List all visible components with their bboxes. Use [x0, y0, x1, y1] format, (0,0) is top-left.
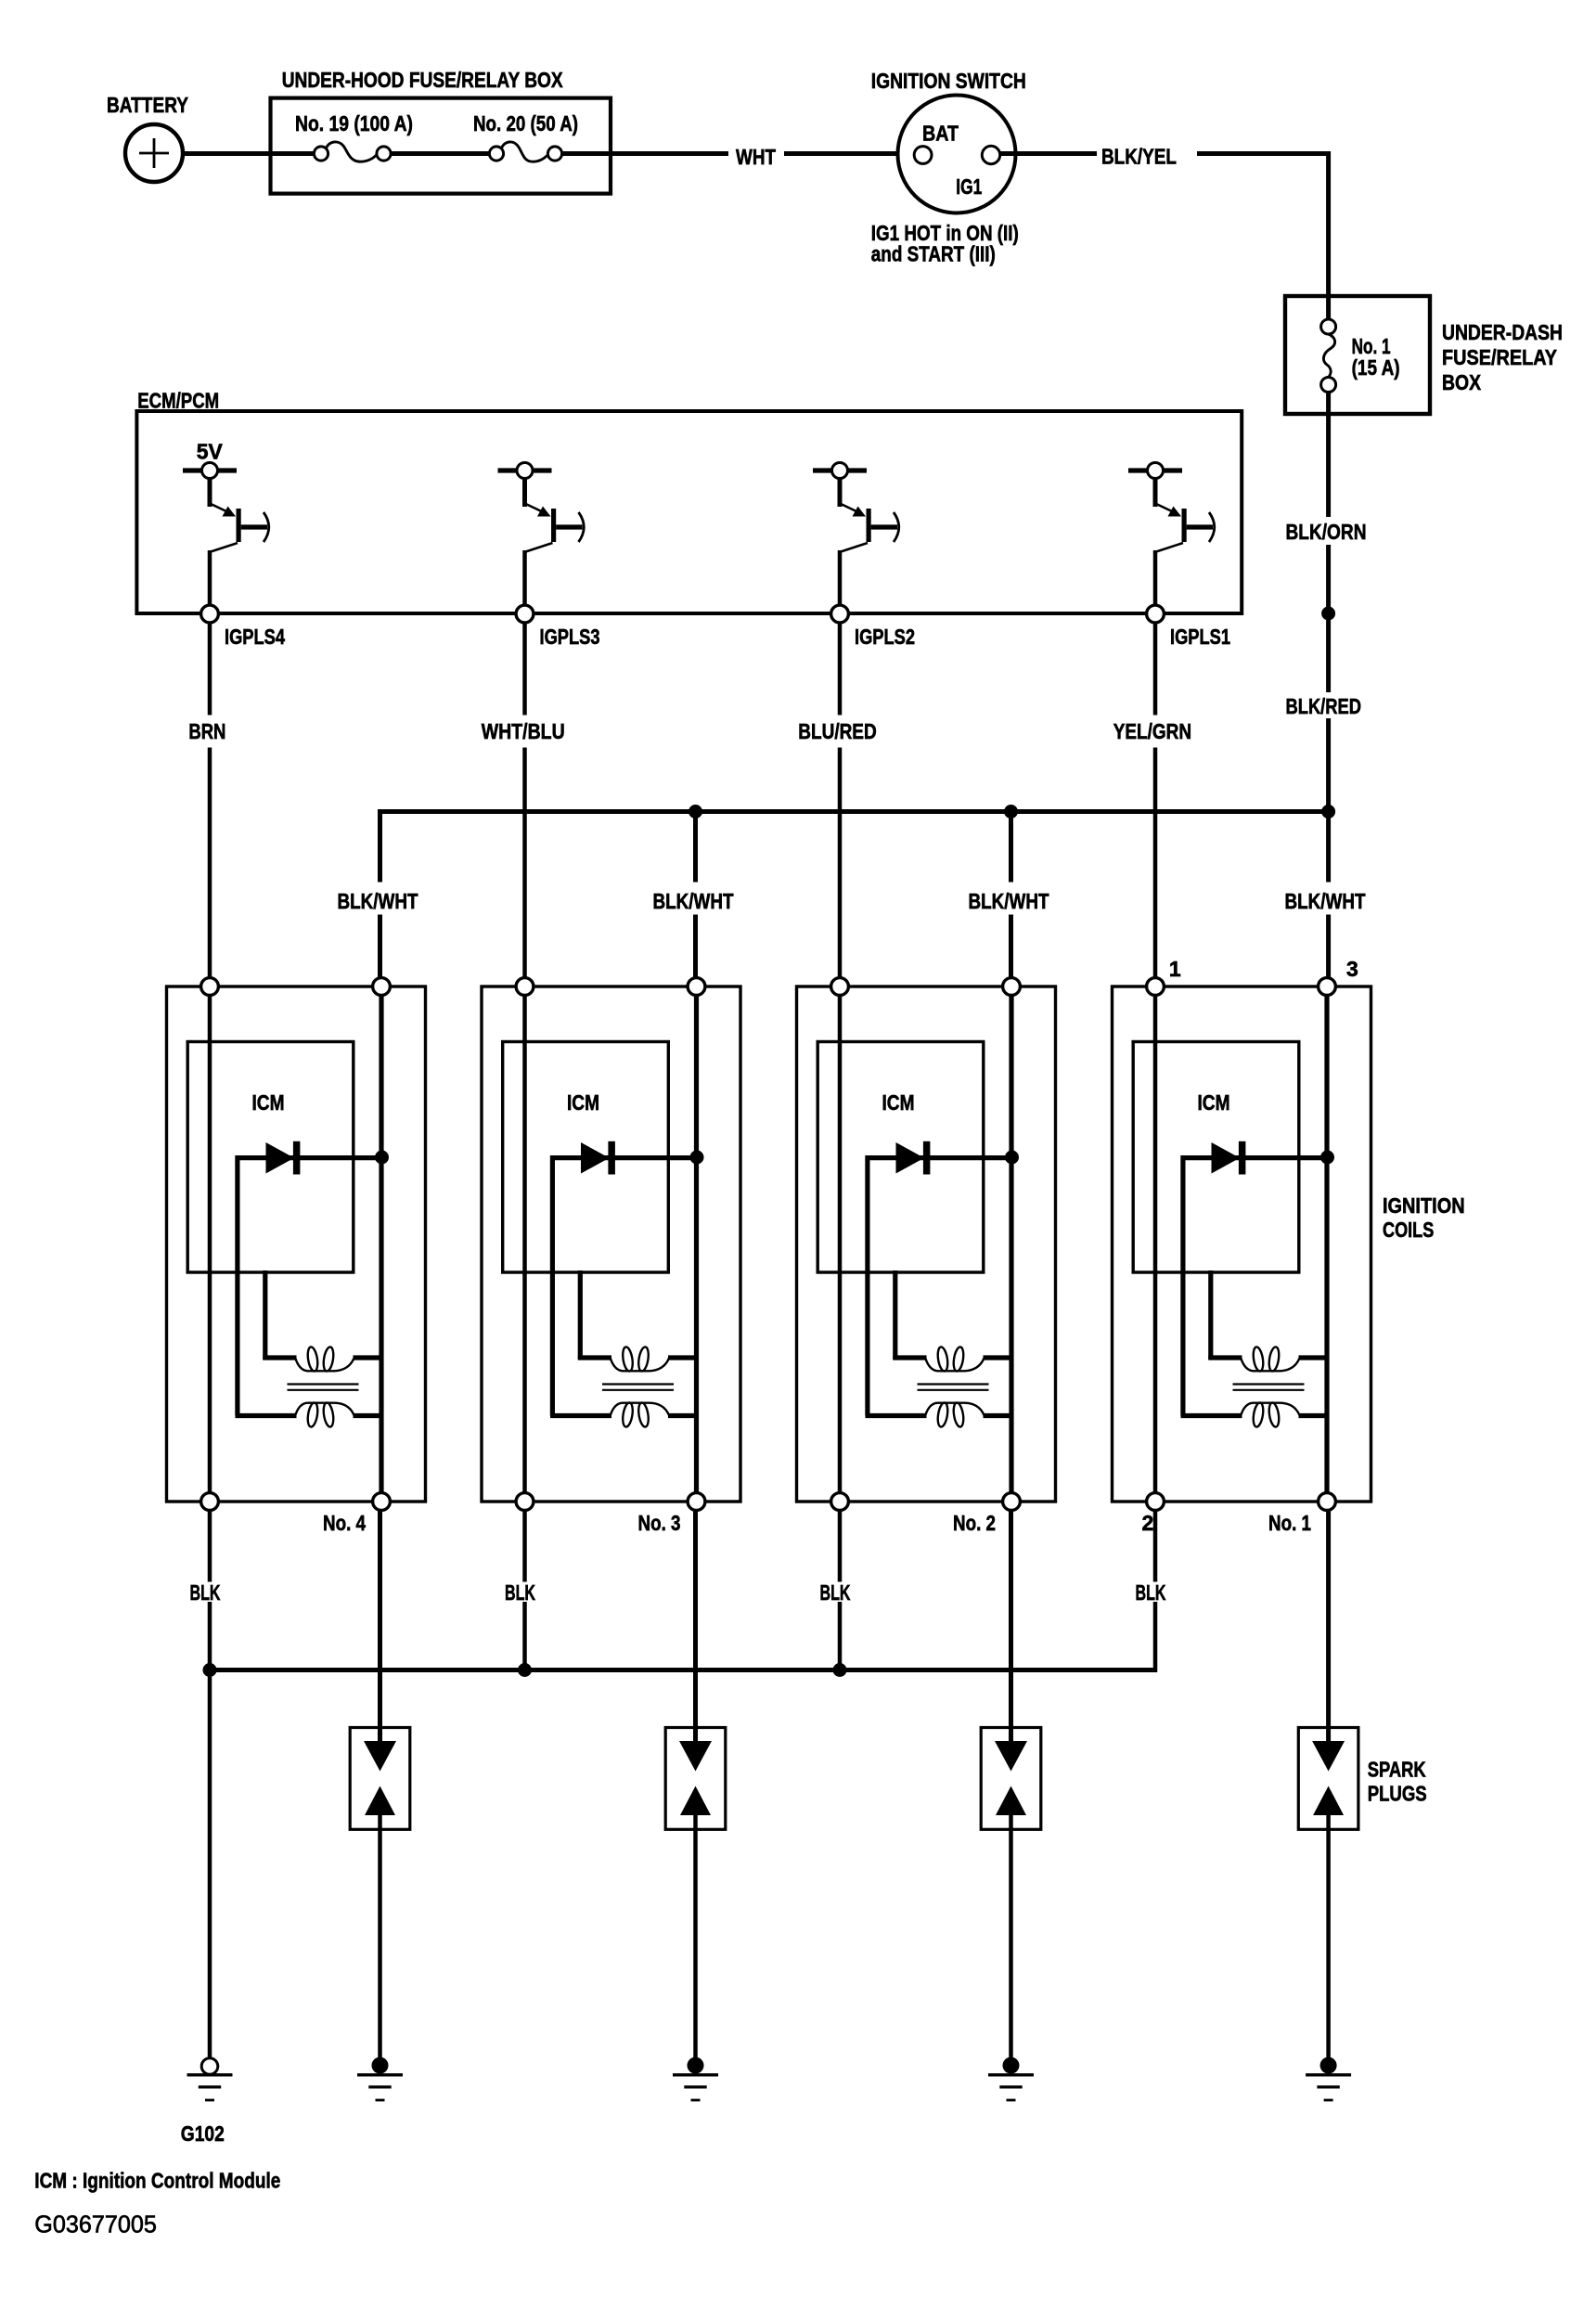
- wire coil 3 to spark plug: [693, 1511, 698, 1746]
- svg-text:ICM: ICM: [252, 1090, 285, 1115]
- svg-text:WHT: WHT: [736, 145, 776, 169]
- coil 1 bottom-left terminal: [1147, 1493, 1165, 1511]
- svg-text:IGPLS2: IGPLS2: [855, 625, 915, 649]
- wire BLK/RED down to bus: [1326, 718, 1331, 883]
- svg-text:YEL/GRN: YEL/GRN: [1113, 719, 1191, 743]
- ground bus junctions: [203, 1663, 217, 1677]
- ignition coil transformer T2 secondary: [866, 1402, 1014, 1428]
- ground (spark plug 1): [1306, 2057, 1351, 2100]
- ICM box (coil 4): [187, 1042, 354, 1273]
- ECM pin IGPLS3: [516, 605, 599, 649]
- ICM box (coil 3): [503, 1042, 669, 1273]
- ignition switch note: [871, 221, 1019, 266]
- control wire through ICM: [1153, 994, 1158, 1494]
- control wire through ICM: [838, 994, 843, 1494]
- wire to coil 1 terminal 3: [1326, 915, 1331, 979]
- wire BLK/ORN continues: [1326, 545, 1331, 692]
- svg-text:BLU/RED: BLU/RED: [798, 719, 876, 743]
- coil supply wire (right, from top terminal to bottom terminal): [694, 994, 699, 1494]
- svg-text:IGPLS1: IGPLS1: [1170, 625, 1230, 649]
- svg-text:1: 1: [1169, 957, 1181, 981]
- svg-text:IGPLS3: IGPLS3: [540, 625, 600, 649]
- ignition coil 1 box: [1113, 986, 1371, 1502]
- coil 3 top-left terminal: [516, 978, 534, 996]
- wire BLK/WHT to coil 3: [693, 915, 698, 979]
- ignition coil transformer T4 secondary: [236, 1402, 384, 1428]
- coil supply wire (right, from top terminal to bottom terminal): [379, 994, 383, 1494]
- under-dash box label: [1442, 320, 1563, 394]
- svg-text:BLK: BLK: [190, 1580, 221, 1605]
- transformer T2 core: [918, 1385, 989, 1390]
- wire spark plug 1 to ground: [1326, 1813, 1331, 2057]
- ICM box (coil 1): [1133, 1042, 1299, 1273]
- ignition coil 2 box: [797, 986, 1056, 1502]
- BLK/WHT bus wire: [378, 809, 1329, 814]
- svg-text:PLUGS: PLUGS: [1368, 1782, 1427, 1806]
- coil 4 bottom-right terminal: [373, 1493, 391, 1511]
- ground (spark plug 2): [988, 2057, 1034, 2100]
- bus junction to coil 2: [1004, 805, 1018, 819]
- coil 4 top-right terminal: [373, 978, 391, 996]
- svg-text:IGPLS4: IGPLS4: [225, 625, 285, 649]
- label SPARK PLUGS: [1368, 1758, 1427, 1806]
- junction diode/supply: [375, 1151, 389, 1165]
- svg-text:ICM: ICM: [882, 1090, 915, 1115]
- svg-text:No. 2: No. 2: [953, 1511, 996, 1535]
- svg-text:BLK: BLK: [820, 1580, 851, 1605]
- svg-text:BLK/YEL: BLK/YEL: [1101, 145, 1177, 169]
- coil supply wire (right, from top terminal to bottom terminal): [1324, 994, 1329, 1494]
- ECM pin IGPLS1: [1147, 605, 1231, 649]
- spark plug 4: [350, 1728, 410, 1830]
- diode D2 in ICM: [868, 1141, 1010, 1416]
- wire coil 4 to spark plug: [378, 1511, 382, 1746]
- coil 2 top-left terminal: [831, 978, 849, 996]
- coil 2 bottom-right terminal: [1003, 1493, 1021, 1511]
- svg-text:BATTERY: BATTERY: [107, 93, 188, 117]
- wire BLK to ground bus: [208, 1602, 212, 1672]
- ECM pin IGPLS2: [831, 605, 915, 649]
- svg-text:5V: 5V: [197, 439, 224, 463]
- coil 3 bottom-left terminal: [516, 1493, 534, 1511]
- wire spark plug 2 to ground: [1009, 1813, 1013, 2057]
- svg-text:IGNITION SWITCH: IGNITION SWITCH: [871, 69, 1026, 93]
- svg-text:BLK/WHT: BLK/WHT: [338, 889, 418, 913]
- transformer T3 core: [602, 1385, 674, 1390]
- coil 4 top-left terminal: [201, 978, 219, 996]
- svg-text:G03677005: G03677005: [34, 2212, 157, 2238]
- svg-text:No. 20 (50 A): No. 20 (50 A): [473, 111, 578, 135]
- wire BRN from IGPLS4: [208, 623, 212, 716]
- svg-text:BLK/WHT: BLK/WHT: [969, 889, 1049, 913]
- battery B1: [107, 93, 188, 182]
- wire BLK/ORN from under-dash box down: [1326, 393, 1331, 518]
- wire BLK to ground bus: [1153, 1602, 1158, 1672]
- fuse No.19 (100 A): [295, 111, 413, 161]
- svg-text:BLK/RED: BLK/RED: [1286, 694, 1362, 718]
- svg-text:FUSE/RELAY: FUSE/RELAY: [1442, 345, 1557, 369]
- svg-text:3: 3: [1346, 957, 1358, 981]
- wire fuse box to ignition switch, WHT: [562, 151, 729, 156]
- svg-text:BAT: BAT: [922, 122, 959, 146]
- svg-text:UNDER-DASH: UNDER-DASH: [1442, 320, 1563, 344]
- svg-text:SPARK: SPARK: [1368, 1758, 1426, 1782]
- coil supply wire (right, from top terminal to bottom terminal): [1009, 994, 1013, 1494]
- diode D4 in ICM: [238, 1141, 380, 1416]
- wire WHT/BLU continues to coil: [522, 748, 527, 979]
- transistor Q3 (IGPLS3 driver): [498, 463, 585, 606]
- wire bus to G102: [208, 1670, 212, 2058]
- transistor Q2 (IGPLS2 driver): [813, 463, 899, 606]
- svg-text:ECM/PCM: ECM/PCM: [137, 389, 219, 413]
- coil 3 bottom-right terminal: [688, 1493, 705, 1511]
- svg-text:ICM: ICM: [567, 1090, 599, 1115]
- svg-text:BLK/ORN: BLK/ORN: [1286, 520, 1367, 544]
- coil 1 bottom-right terminal: [1319, 1493, 1336, 1511]
- wire battery to under-hood fuse box: [181, 151, 271, 156]
- wire BLU/RED continues to coil: [838, 748, 843, 979]
- transformer T1 core: [1233, 1385, 1305, 1390]
- coil 2 top-right terminal: [1003, 978, 1021, 996]
- svg-text:BRN: BRN: [188, 719, 225, 743]
- coil 3 top-right terminal: [688, 978, 705, 996]
- svg-text:ICM: ICM: [1198, 1090, 1230, 1115]
- junction of BLK/WHT bus: [1321, 805, 1335, 819]
- transformer T4 core: [288, 1385, 359, 1390]
- ignition coil 4 box: [167, 986, 426, 1502]
- wire WHT to ignition switch BAT: [784, 151, 915, 156]
- ignition coil transformer T2 primary: [893, 1270, 1013, 1372]
- svg-text:2: 2: [1142, 1511, 1154, 1535]
- transistor Q4 (IGPLS4 driver): [183, 439, 269, 605]
- ground bus wire: [210, 1668, 1155, 1672]
- svg-text:BOX: BOX: [1442, 370, 1482, 394]
- wire BLK from coil 3: [522, 1511, 527, 1582]
- splice junction: [1321, 607, 1335, 621]
- svg-text:IGNITION: IGNITION: [1383, 1193, 1465, 1218]
- ground (spark plug 3): [673, 2057, 718, 2100]
- junction diode/supply: [690, 1151, 704, 1165]
- ground (spark plug 4): [357, 2057, 403, 2100]
- ignition coil transformer T1 secondary: [1181, 1402, 1330, 1428]
- wire BLK from coil 1: [1153, 1511, 1158, 1582]
- diode D3 in ICM: [552, 1141, 694, 1416]
- wire IG1 to BLK/YEL: [1000, 151, 1098, 156]
- ignition coil transformer T3 primary: [578, 1270, 699, 1372]
- control wire through ICM: [522, 994, 527, 1494]
- svg-text:G102: G102: [181, 2121, 225, 2146]
- coil 1 top-left terminal: [1147, 978, 1165, 996]
- svg-text:No. 4: No. 4: [323, 1511, 366, 1535]
- under-hood fuse/relay box: [271, 68, 611, 194]
- transistor Q1 (IGPLS1 driver): [1128, 463, 1215, 606]
- svg-text:and START (III): and START (III): [871, 242, 996, 266]
- under-dash fuse/relay box: [1285, 296, 1430, 414]
- ignition coil transformer T4 primary: [263, 1270, 383, 1372]
- fuse No.1 (15 A) vertical: [1321, 296, 1336, 393]
- junction diode/supply: [1320, 1151, 1334, 1165]
- wire BLK to ground bus: [522, 1602, 527, 1672]
- wire BLK/YEL to under-dash box: [1197, 154, 1329, 297]
- coil 1 top-right terminal: [1319, 978, 1336, 996]
- spark plug 1: [1298, 1728, 1358, 1830]
- coil 2 bottom-left terminal: [831, 1493, 849, 1511]
- ignition switch: [871, 69, 1026, 213]
- control wire through ICM: [208, 994, 212, 1494]
- svg-text:UNDER-HOOD FUSE/RELAY BOX: UNDER-HOOD FUSE/RELAY BOX: [282, 68, 564, 92]
- wire coil 2 to spark plug: [1009, 1511, 1013, 1746]
- svg-text:BLK: BLK: [505, 1580, 535, 1605]
- diode D1 in ICM: [1183, 1141, 1325, 1416]
- ground G102: [181, 2058, 233, 2146]
- wire spark plug 3 to ground: [693, 1813, 698, 2057]
- wire BLK to ground bus: [838, 1602, 843, 1672]
- label IGNITION COILS: [1383, 1193, 1465, 1242]
- spark plug 2: [981, 1728, 1041, 1830]
- wire between fuses: [392, 151, 490, 156]
- svg-text:No. 1: No. 1: [1268, 1511, 1311, 1535]
- wire YEL/GRN from IGPLS1: [1153, 623, 1158, 716]
- svg-text:No. 19 (100 A): No. 19 (100 A): [295, 111, 413, 135]
- svg-text:No. 3: No. 3: [638, 1511, 681, 1535]
- fuse No.20 (50 A): [473, 111, 578, 161]
- junction diode/supply: [1005, 1151, 1019, 1165]
- svg-text:(15 A): (15 A): [1352, 355, 1400, 380]
- svg-text:COILS: COILS: [1383, 1218, 1434, 1242]
- wire BLK from coil 2: [838, 1511, 843, 1582]
- ECM pin IGPLS4: [201, 605, 286, 649]
- ECM/PCM box: [136, 389, 1242, 614]
- ignition coil 3 box: [482, 986, 740, 1502]
- svg-text:BLK/WHT: BLK/WHT: [1285, 889, 1366, 913]
- ICM box (coil 2): [817, 1042, 984, 1273]
- svg-text:IG1: IG1: [956, 174, 982, 199]
- wire coil 1 to spark plug: [1326, 1511, 1331, 1746]
- wire spark plug 4 to ground: [378, 1813, 382, 2057]
- wire into fuse No.19: [271, 151, 315, 156]
- wire YEL/GRN continues to coil: [1153, 748, 1158, 979]
- bus junction to coil 3: [689, 805, 702, 819]
- wire BLK/WHT to coil 2: [1009, 915, 1013, 979]
- bus corner down to coil 4: [378, 809, 382, 883]
- coil 4 bottom-left terminal: [201, 1493, 219, 1511]
- svg-text:ICM : Ignition Control Module: ICM : Ignition Control Module: [34, 2169, 280, 2193]
- wire WHT/BLU from IGPLS3: [522, 623, 527, 716]
- svg-text:BLK/WHT: BLK/WHT: [653, 889, 734, 913]
- ignition coil transformer T3 secondary: [550, 1402, 699, 1428]
- svg-text:WHT/BLU: WHT/BLU: [482, 719, 565, 743]
- svg-text:BLK: BLK: [1136, 1580, 1166, 1605]
- wire BLU/RED from IGPLS2: [838, 623, 843, 716]
- wire BLK from coil 4: [208, 1511, 212, 1582]
- wire BLK/WHT to coil 4: [378, 915, 382, 979]
- wire BRN continues to coil: [208, 748, 212, 979]
- ignition coil transformer T1 primary: [1208, 1270, 1329, 1372]
- spark plug 3: [665, 1728, 726, 1830]
